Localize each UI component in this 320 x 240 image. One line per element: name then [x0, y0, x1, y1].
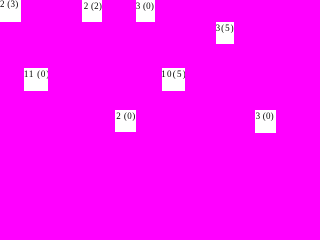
node "3 (0)" top [136, 0, 156, 22]
node "3(5)" [216, 22, 234, 44]
node "11 (0)" [24, 68, 48, 91]
node "2 (3)" [0, 0, 21, 22]
node "3 (0)" bottom [255, 110, 276, 133]
node "2 (0)" [115, 110, 135, 132]
node "2 (2)" [82, 0, 102, 22]
node "10(5)" [162, 68, 185, 91]
